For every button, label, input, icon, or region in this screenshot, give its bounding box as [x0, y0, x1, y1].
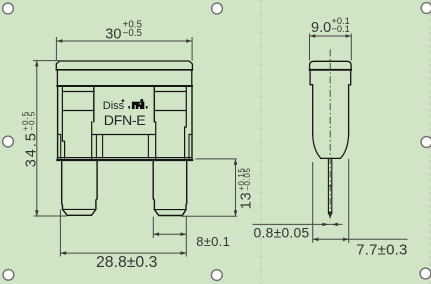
- fuse collar sides: [56, 70, 58, 86]
- window lower-right edge: [155, 122, 157, 159]
- svg-text:Diss: Diss: [103, 100, 125, 112]
- centerline: [329, 49, 331, 221]
- svg-text:9.0: 9.0: [311, 20, 331, 36]
- right edge tick: [189, 134, 192, 158]
- svg-text:8±0.1: 8±0.1: [196, 234, 230, 249]
- dim 0.8 line: [253, 223, 343, 225]
- dim 7.7 ext lines: [313, 159, 349, 243]
- fuse cap top: [56, 61, 192, 70]
- dim 34.5 line: [36, 61, 38, 217]
- registered mark: [121, 99, 124, 102]
- fold line right: [429, 0, 431, 284]
- side body right: [349, 70, 351, 135]
- taper right: [340, 135, 348, 158]
- window bottom line: [92, 134, 156, 136]
- right leg bevel line: [154, 209, 186, 211]
- UL logo blob: [128, 99, 147, 109]
- left blade leg: [62, 161, 97, 215]
- window left edge: [93, 86, 95, 122]
- body bottom thick band: [58, 159, 193, 161]
- window lower-left edge: [91, 122, 93, 159]
- svg-text:0.8±0.05: 0.8±0.05: [254, 225, 310, 240]
- arrowheads: [35, 34, 351, 255]
- svg-text:34.5: 34.5: [24, 131, 40, 167]
- fuse body left edge: [57, 86, 59, 158]
- dim 9 line: [310, 35, 352, 37]
- arrows dim 7.7: [313, 238, 319, 242]
- blade tick: [328, 185, 331, 187]
- text 13 rotated: [237, 168, 255, 210]
- fuse body top line: [57, 85, 192, 87]
- arrows dim 30: [57, 39, 63, 43]
- svg-text:30: 30: [105, 27, 121, 43]
- svg-text:13: 13: [239, 191, 255, 209]
- arrows dim 28.8: [60, 251, 66, 255]
- svg-text:−0.1: −0.1: [331, 24, 349, 34]
- blade sides: [328, 158, 331, 213]
- left edge tick: [58, 134, 61, 158]
- arrows dim 8: [153, 232, 159, 236]
- side cap bottom line: [310, 69, 352, 71]
- dim 34.5 ext lines: [33, 61, 67, 216]
- arrows dim 0.8: [322, 223, 328, 227]
- dim 30 line: [57, 40, 192, 42]
- blade tip: [328, 212, 332, 219]
- fuse cap bottom line: [56, 69, 192, 71]
- right column line: [185, 86, 187, 158]
- shoulder line: [321, 157, 340, 159]
- lower verticals: [96, 135, 148, 158]
- arrows dim 34.5: [35, 61, 39, 67]
- svg-text:−0.5: −0.5: [123, 28, 143, 39]
- side body left: [310, 70, 313, 135]
- dim 28.8 ext lines: [60, 210, 186, 257]
- svg-text:−0.05: −0.05: [243, 168, 252, 191]
- svg-text:DFN-E: DFN-E: [104, 113, 146, 129]
- left column line: [62, 86, 64, 158]
- dim 9 ext lines: [310, 34, 352, 61]
- svg-text:−0.5: −0.5: [28, 111, 37, 131]
- body bottom thin line: [58, 157, 192, 159]
- arrows dim 9: [310, 34, 316, 38]
- dim 8 line: [153, 233, 186, 235]
- dim 8 ext line left: [152, 217, 154, 238]
- svg-text:28.8±0.3: 28.8±0.3: [96, 254, 158, 271]
- left leg bevel line: [63, 208, 96, 210]
- text 34.5 rotated: [21, 111, 39, 168]
- right blade leg: [153, 161, 187, 216]
- dim 13 line: [235, 159, 237, 216]
- dim 13 ext lines: [181, 159, 237, 216]
- dim 30 ext lines: [56, 37, 192, 61]
- right inner box: [155, 91, 186, 93]
- fuse body right edge: [191, 86, 193, 158]
- left inner box: [63, 91, 94, 93]
- arrows dim 13: [234, 159, 238, 165]
- taper left: [313, 135, 321, 158]
- dim 7.7 line: [313, 238, 408, 240]
- svg-text:7.7±0.3: 7.7±0.3: [356, 242, 407, 259]
- window right edge: [153, 86, 155, 122]
- label: Diss logo text: [103, 99, 148, 129]
- dim 28.8 line: [60, 252, 186, 254]
- side cap: [310, 61, 352, 70]
- fold line center: [260, 0, 262, 284]
